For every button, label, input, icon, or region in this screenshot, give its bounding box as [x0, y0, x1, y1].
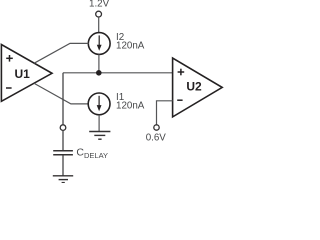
wire 1.2V to I2: [98, 17, 100, 32]
wire circle to capacitor: [62, 130, 64, 150]
op-amp U1: [1, 45, 52, 102]
label CDELAY: [76, 147, 108, 160]
label 0.6V: [146, 132, 167, 143]
junction dot: [96, 70, 102, 76]
ground under CDELAY: [53, 176, 73, 183]
svg-text:1.2V: 1.2V: [89, 0, 110, 10]
label I2 120nA: [116, 32, 145, 51]
svg-text:U2: U2: [186, 80, 202, 94]
wire U1 output to I2 (diagonal + horizontal): [34, 43, 88, 63]
current source I2: [88, 33, 110, 55]
wire U1 output to I1 (diagonal + horizontal): [34, 83, 88, 104]
svg-text:120nA: 120nA: [116, 40, 145, 51]
wire 0.6V to U2 - input: [157, 101, 173, 125]
current source I1: [88, 93, 110, 115]
svg-text:U1: U1: [15, 67, 31, 81]
node 0.6V terminal circle: [154, 125, 159, 130]
node 1.2V terminal circle: [96, 11, 102, 17]
wire I2 to junction: [98, 54, 100, 72]
label I1 120nA: [116, 92, 145, 111]
wire main horizontal node to U2 +: [63, 72, 172, 74]
wire capacitor to ground: [62, 155, 64, 175]
svg-text:120nA: 120nA: [116, 100, 145, 111]
node 1.2V label: [89, 0, 110, 10]
svg-text:0.6V: 0.6V: [146, 132, 167, 143]
wire node to CDELAY: [62, 73, 64, 125]
node open circle above CDELAY: [60, 125, 66, 131]
ground under I1: [89, 132, 110, 140]
op-amp U2: [173, 58, 223, 117]
svg-text:DELAY: DELAY: [84, 151, 108, 160]
wire I1 to ground: [98, 115, 100, 131]
capacitor CDELAY: [53, 151, 73, 155]
